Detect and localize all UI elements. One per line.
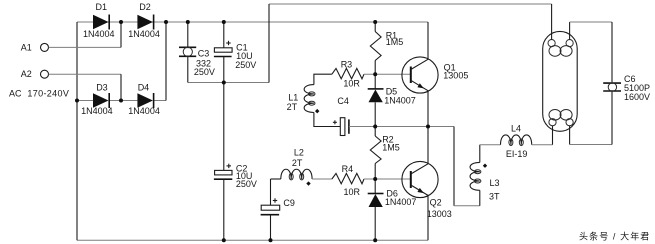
wire R4 to base node 2 xyxy=(364,178,411,180)
svg-text:A1: A1 xyxy=(21,42,32,52)
capacitor C1 xyxy=(223,22,225,48)
wire bottom DC rail xyxy=(77,239,428,241)
junction node R1 top xyxy=(373,20,377,24)
junction node half-bridge midpoint xyxy=(426,125,430,129)
junction node D1-D2 / A1 xyxy=(119,20,123,24)
wire lower diode row xyxy=(77,100,93,102)
lamp top filament xyxy=(548,40,555,47)
junction node Q2 base xyxy=(373,177,377,181)
svg-text:250V: 250V xyxy=(236,179,257,189)
svg-text:L1: L1 xyxy=(288,93,298,103)
svg-text:1N4007: 1N4007 xyxy=(384,96,416,106)
winding dot L2 xyxy=(306,181,310,185)
wire R3 to base node 1 xyxy=(364,73,411,75)
junction node bridge + rail xyxy=(164,20,168,24)
wire lamp top-right pin to C6 xyxy=(569,22,571,40)
svg-text:10R: 10R xyxy=(344,187,361,197)
capacitor C6 xyxy=(603,82,621,84)
wire L1 top corner xyxy=(314,74,332,84)
wire A2 drop xyxy=(120,74,122,100)
svg-text:D1: D1 xyxy=(96,2,108,12)
svg-text:1M5: 1M5 xyxy=(382,142,400,152)
junction node C1 top xyxy=(222,20,226,24)
svg-text:L4: L4 xyxy=(511,124,521,134)
svg-text:1N4004: 1N4004 xyxy=(81,106,113,116)
svg-text:D3: D3 xyxy=(96,83,108,93)
wire lamp top-left pin xyxy=(551,4,553,40)
diode D6 xyxy=(374,179,376,194)
wire A1 lead xyxy=(49,46,121,48)
svg-text:250V: 250V xyxy=(235,60,256,70)
svg-text:3T: 3T xyxy=(489,192,500,202)
resistor R4 xyxy=(332,173,364,183)
transistor Q2 xyxy=(402,161,438,197)
wire lamp bottom-right pin to C6 xyxy=(569,126,571,145)
junction node D6 anode rail xyxy=(373,238,377,242)
diode D2 xyxy=(137,15,153,29)
svg-text:D4: D4 xyxy=(138,83,150,93)
svg-text:13003: 13003 xyxy=(427,209,452,219)
svg-text:2T: 2T xyxy=(292,158,303,168)
svg-text:10R: 10R xyxy=(343,79,360,89)
svg-text:250V: 250V xyxy=(194,67,215,77)
inductor L2 xyxy=(271,178,281,180)
wire Q2 collector riser xyxy=(427,127,429,164)
wire L4 to lamp xyxy=(532,144,553,146)
lamp bottom filament xyxy=(549,119,556,126)
wire L2 to R4 xyxy=(312,178,332,180)
svg-text:13005: 13005 xyxy=(443,70,468,80)
svg-text:1N4004: 1N4004 xyxy=(83,29,115,39)
svg-text:C9: C9 xyxy=(283,198,295,208)
wire Q2 emitter drop xyxy=(427,196,429,241)
junction node D3 anode xyxy=(75,99,79,103)
wire Q1 emitter drop xyxy=(427,91,429,127)
junction node Q1 base xyxy=(373,72,377,76)
terminal A1 xyxy=(41,43,49,51)
svg-text:170-240V: 170-240V xyxy=(27,89,69,99)
svg-text:R3: R3 xyxy=(341,60,353,70)
capacitor C2 xyxy=(223,83,225,171)
lamp tube xyxy=(543,31,578,131)
svg-text:头条号 / 大年君: 头条号 / 大年君 xyxy=(579,231,650,242)
svg-text:AC: AC xyxy=(9,89,22,99)
wire L1 bottom corner xyxy=(314,113,340,127)
wire C1/C2 midpoint horizontal xyxy=(188,82,269,84)
wire Q1 collector riser xyxy=(427,22,429,59)
resistor R3 xyxy=(332,68,364,78)
wire midpoint riser to lamp feed xyxy=(268,4,270,83)
wire A2 lead xyxy=(49,73,121,75)
svg-text:1M5: 1M5 xyxy=(386,37,404,47)
wire C4 to midpoint xyxy=(349,126,376,128)
svg-text:EI-19: EI-19 xyxy=(506,149,528,159)
wire left bridge vertical xyxy=(76,22,78,240)
junction node C9 bottom xyxy=(269,238,273,242)
diode D4 xyxy=(137,93,153,107)
svg-text:R4: R4 xyxy=(342,164,354,174)
junction node C2 bottom xyxy=(222,238,226,242)
diode D3 xyxy=(93,93,109,107)
resistor R1 xyxy=(374,22,376,32)
svg-text:Q2: Q2 xyxy=(430,198,442,208)
svg-text:C4: C4 xyxy=(337,96,349,106)
wire bridge output riser xyxy=(165,22,167,101)
capacitor C9 xyxy=(270,179,272,205)
inductor L4 xyxy=(501,135,532,145)
svg-text:1N4004: 1N4004 xyxy=(128,29,160,39)
wire midpoint row xyxy=(375,126,454,128)
svg-text:1600V: 1600V xyxy=(624,92,650,102)
wire top DC rail xyxy=(77,21,428,23)
junction node half-bridge midpoint left xyxy=(373,125,377,129)
svg-text:2T: 2T xyxy=(287,102,298,112)
inductor L3 xyxy=(479,190,481,206)
terminal A2 xyxy=(41,70,49,78)
junction node C3 top xyxy=(186,20,190,24)
capacitor C3 xyxy=(187,22,189,47)
svg-text:L3: L3 xyxy=(490,178,500,188)
wire lamp top feed rail xyxy=(269,3,552,5)
capacitor C4 xyxy=(340,118,345,136)
svg-text:1N4004: 1N4004 xyxy=(128,106,160,116)
svg-text:A2: A2 xyxy=(21,69,32,79)
svg-text:C3: C3 xyxy=(198,49,210,59)
diode D1 xyxy=(93,15,109,29)
inductor L1 xyxy=(304,85,314,113)
junction node D3-D4 / A2 xyxy=(119,99,123,103)
wire L3 to L4 xyxy=(480,144,501,146)
svg-text:L2: L2 xyxy=(294,148,304,158)
svg-text:1N4007: 1N4007 xyxy=(385,197,417,207)
wire A1 riser xyxy=(120,22,122,47)
winding dot L3 xyxy=(483,164,487,168)
diode D5 xyxy=(374,74,376,89)
winding dot L1 xyxy=(315,109,319,113)
wire midpoint to L3 xyxy=(453,127,455,206)
svg-text:D2: D2 xyxy=(139,2,151,12)
resistor R2 xyxy=(374,127,376,137)
junction node C1-C2 midpoint xyxy=(222,81,226,85)
transistor Q1 xyxy=(402,57,438,93)
